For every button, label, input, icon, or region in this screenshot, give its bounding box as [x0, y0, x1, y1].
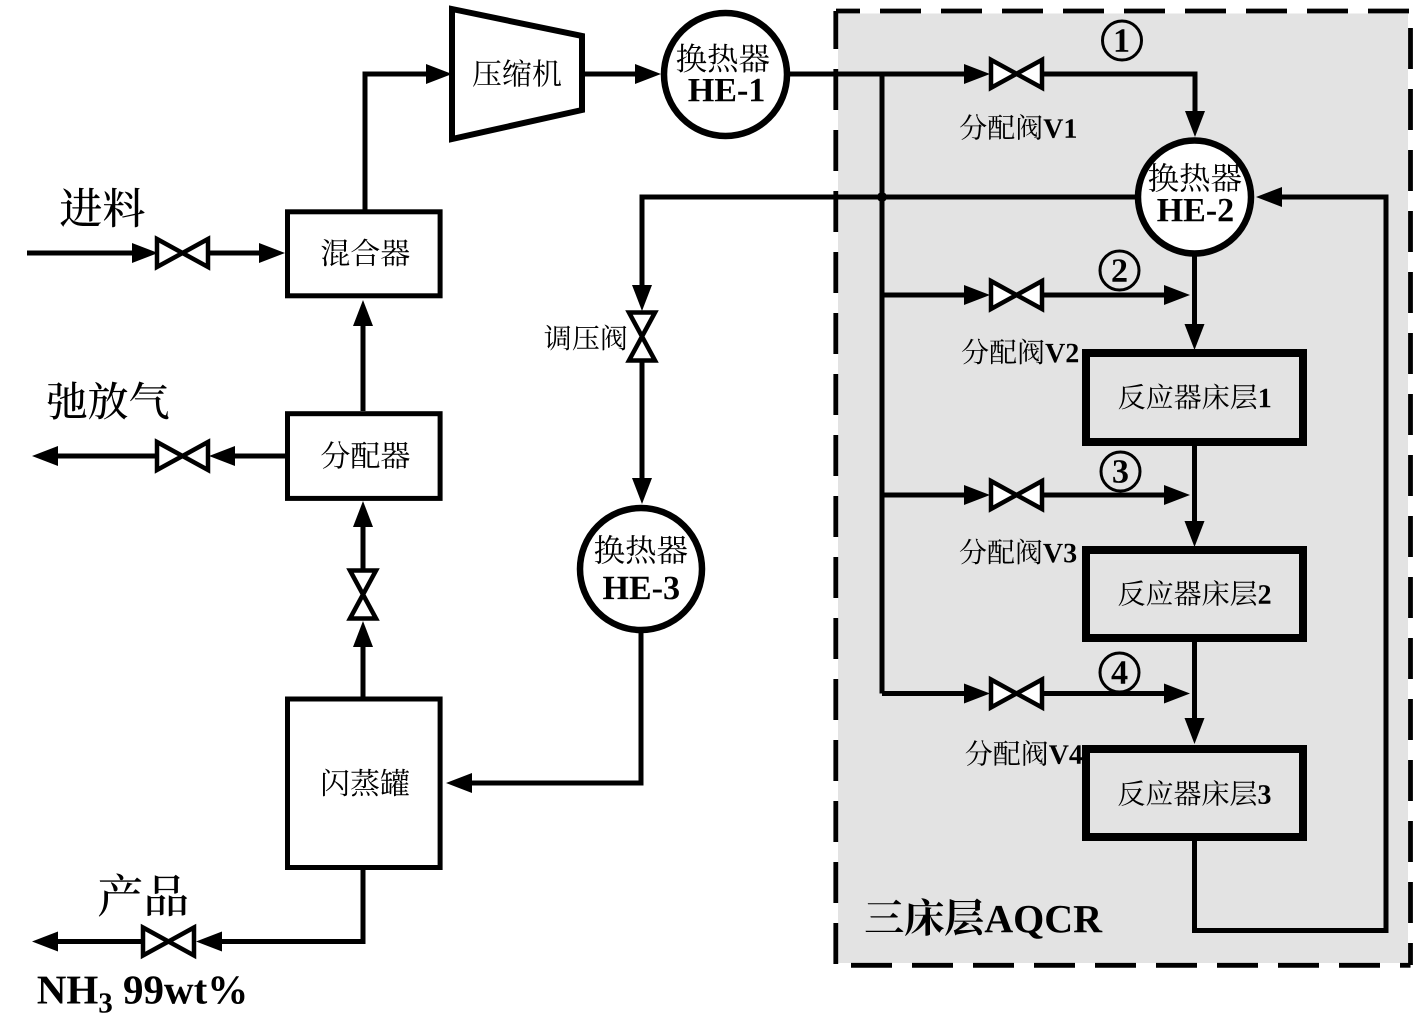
- AQCR panel dashed border left: [833, 11, 838, 965]
- AQCR panel dashed border right: [1408, 11, 1413, 965]
- wire valve V3 to bed2 feed line: [1043, 485, 1190, 505]
- label 分配阀V4: [966, 740, 1083, 766]
- label 弛放气 (purge gas): [47, 382, 168, 420]
- distribution valve V2: [991, 281, 1042, 309]
- wire purge valve to purge outlet: [32, 446, 156, 466]
- distribution valve V1: [991, 60, 1042, 88]
- flash tank 闪蒸罐 box: [288, 699, 441, 868]
- wire HE-2 to reactor bed 1: [1185, 253, 1205, 350]
- label 分配阀V2: [962, 339, 1078, 365]
- label 调压阀: [545, 325, 627, 351]
- circled number 3: [1101, 452, 1140, 491]
- recycle valve (vertical) between flash tank and splitter: [350, 571, 376, 619]
- splitter 分配器 box: [288, 414, 441, 499]
- wire valve V4 to bed3 feed line: [1043, 684, 1190, 704]
- circled number 2: [1100, 251, 1139, 290]
- wire feed inlet to feed valve: [27, 243, 158, 263]
- wire HE-1 to valve V1: [787, 64, 990, 84]
- label 三床层AQCR: [866, 898, 1103, 939]
- heat exchanger HE-2: [1138, 141, 1251, 254]
- wire recycle valve to splitter: [353, 501, 373, 569]
- AQCR panel dashed border bottom: [836, 963, 1411, 968]
- mixer 混合器 box: [288, 212, 441, 296]
- circled number 1: [1103, 21, 1142, 60]
- wire flash tank top to recycle valve: [353, 621, 373, 697]
- heat exchanger HE-1: [664, 13, 787, 136]
- feed valve: [157, 239, 208, 267]
- AQCR panel dashed border top: [836, 9, 1411, 14]
- product valve: [143, 928, 194, 956]
- label 产品 (product): [99, 873, 187, 916]
- compressor 压缩机: [452, 9, 582, 139]
- wire splitter to purge valve: [209, 446, 285, 466]
- wire pressure valve to HE-3: [632, 361, 652, 504]
- wire mixer to compressor: [365, 64, 452, 211]
- wire HE-2 outlet to pressure valve: [632, 197, 1136, 311]
- wire valve V2 to bed feed line: [1043, 285, 1190, 305]
- heat exchanger HE-3: [580, 508, 702, 630]
- pressure regulating valve 调压阀: [629, 313, 655, 361]
- wire product valve to product outlet: [32, 932, 142, 952]
- wire compressor to HE-1: [581, 64, 661, 84]
- wire valve V1 to HE-2 top: [1043, 74, 1205, 137]
- wire trunk to valve V4: [882, 684, 990, 704]
- label NH3 99wt%: [38, 976, 245, 1013]
- reactor bed 3 box 反应器床层3: [1086, 749, 1303, 837]
- wire splitter to mixer: [353, 300, 373, 411]
- wire reactor bed1 to bed2: [1185, 446, 1205, 547]
- junction dot at trunk and HE-2 outlet crossing: [877, 192, 887, 202]
- wire reactor bed2 to bed3: [1185, 642, 1205, 744]
- purge valve: [157, 442, 208, 470]
- feed trunk wire (vertical distribution header): [880, 74, 885, 694]
- wire feed valve to mixer: [208, 243, 285, 263]
- label 进料 (feed): [60, 188, 144, 228]
- wire flash tank bottom to product valve: [196, 870, 363, 952]
- circled number 4: [1100, 653, 1139, 692]
- distribution valve V3: [991, 481, 1042, 509]
- AQCR region panel fill (three-bed AQCR boundary): [838, 14, 1408, 964]
- wire trunk to valve V2: [882, 285, 990, 305]
- label 分配阀V3: [960, 539, 1076, 565]
- return wire bed3 to HE-2 right side: [1195, 187, 1387, 931]
- reactor bed 1 box 反应器床层1: [1086, 353, 1303, 442]
- wire HE-3 to flash tank: [446, 633, 641, 793]
- wire trunk to valve V3: [882, 485, 990, 505]
- reactor bed 2 box 反应器床层2: [1086, 550, 1303, 638]
- distribution valve V4: [991, 680, 1042, 708]
- label 分配阀V1: [960, 114, 1076, 140]
